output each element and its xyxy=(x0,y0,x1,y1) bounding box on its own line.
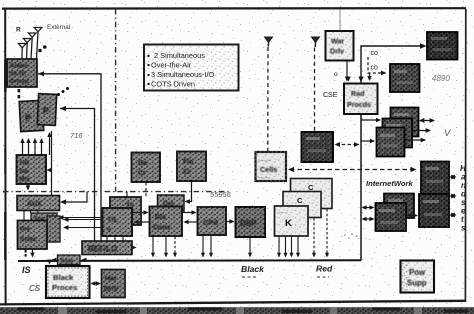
DA converter front box xyxy=(150,207,183,237)
svg-text:CPd: CPd xyxy=(203,218,218,227)
svg-text:COTS Driven: COTS Driven xyxy=(151,80,195,89)
svg-text:Rad: Rad xyxy=(351,90,364,98)
bottom film strip bar xyxy=(0,307,474,314)
svg-text:DSP: DSP xyxy=(240,219,257,228)
dashed section boundary vertical xyxy=(115,9,117,192)
bridge left arrows xyxy=(363,207,374,209)
svg-text:co: co xyxy=(371,50,379,57)
gateway right arrows xyxy=(451,176,456,178)
dsp stack box 3 xyxy=(377,128,405,157)
C stack box 3 xyxy=(275,206,309,236)
dsp stack box 2 xyxy=(383,119,413,148)
frame left thick blobs xyxy=(4,60,7,92)
svg-text:Snju: Snju xyxy=(61,259,74,265)
IS bus line xyxy=(18,259,361,262)
black underline dashes xyxy=(242,276,257,278)
dsp stack left arrows xyxy=(361,119,380,121)
power supply box xyxy=(401,261,435,293)
svg-text:Pre: Pre xyxy=(20,226,31,233)
ref/lo right arrow xyxy=(132,247,136,249)
dotted connector group to PA xyxy=(18,89,21,98)
svg-text:P: P xyxy=(25,113,32,123)
frame bottom line xyxy=(0,301,466,305)
bus down arrows middle xyxy=(153,236,250,257)
dsp stack right arrows xyxy=(420,120,434,122)
rad processor box xyxy=(344,84,378,115)
wire into T/R right edge xyxy=(48,169,52,171)
DSP box xyxy=(236,207,266,237)
svg-text:s: s xyxy=(461,224,466,233)
svg-text:716: 716 xyxy=(70,131,83,140)
dashed wire cells to internetwork xyxy=(290,169,414,171)
antenna B1 dashed feed xyxy=(267,47,269,152)
tuning small box xyxy=(31,213,57,222)
frame left line xyxy=(4,9,6,304)
svg-text:Har: Har xyxy=(105,276,117,283)
svg-text:Drlv: Drlv xyxy=(330,47,344,56)
wire into antenna group from right xyxy=(38,74,101,241)
svg-text:Over-the-Air: Over-the-Air xyxy=(151,61,192,70)
main vertical bus xyxy=(360,114,362,261)
svg-text:Cells: Cells xyxy=(260,165,277,174)
antenna B1 xyxy=(265,37,273,43)
dashed section boundary horizontal xyxy=(3,191,230,193)
svg-text:Black: Black xyxy=(241,264,265,274)
svg-text:Pow: Pow xyxy=(409,268,426,277)
gateway tall box lower xyxy=(419,194,449,227)
svg-text:Conv: Conv xyxy=(153,225,171,232)
svg-text:4890: 4890 xyxy=(432,74,450,83)
T/R switch box xyxy=(17,155,47,184)
svg-text:CS: CS xyxy=(29,284,41,293)
har driver box xyxy=(102,270,126,298)
dashed stub into rad processor xyxy=(369,73,371,80)
svg-text:D/a: D/a xyxy=(155,214,166,221)
dashed co wire xyxy=(368,57,384,73)
right gray radio box xyxy=(390,64,420,92)
wire into aux from right xyxy=(60,199,66,204)
gateway tall box upper xyxy=(421,162,449,195)
frame top line xyxy=(2,7,466,10)
antenna A4 xyxy=(18,44,26,60)
label Handsets vertical xyxy=(460,164,467,233)
wire into aux corner x87 xyxy=(62,192,88,203)
TL back box xyxy=(110,197,141,225)
svg-text:Group: Group xyxy=(10,78,29,85)
svg-text:Cr: Cr xyxy=(183,169,191,176)
svg-text:3 Simultaneous-I/O: 3 Simultaneous-I/O xyxy=(151,70,215,79)
dashed wire modem to bus xyxy=(336,144,358,146)
snju box xyxy=(58,255,81,265)
antenna A2 xyxy=(28,33,36,59)
T/R up arrows xyxy=(23,133,50,155)
svg-text:CSE: CSE xyxy=(323,92,338,99)
svg-text:T/R: T/R xyxy=(19,160,30,167)
C stack box 2 xyxy=(283,192,321,218)
antenna A3 xyxy=(23,39,31,60)
C stack box 1 xyxy=(291,179,333,209)
svg-text:InternetWork: InternetWork xyxy=(366,179,413,188)
top right dark box xyxy=(427,32,458,60)
antenna B2 stem xyxy=(314,43,316,48)
svg-text:=~-=~: =~-=~ xyxy=(258,158,271,163)
note box xyxy=(144,45,239,91)
black processor box xyxy=(46,266,90,298)
antenna B2 xyxy=(312,37,320,43)
CPS box xyxy=(198,207,227,235)
antenna A1 xyxy=(34,28,42,60)
stub into rad processor top left xyxy=(348,78,350,81)
TL front box xyxy=(103,208,133,236)
svg-text:DrlV: DrlV xyxy=(104,286,119,293)
svg-text:co: co xyxy=(371,65,379,72)
Dxt back box xyxy=(158,195,185,211)
svg-text:Selec: Selec xyxy=(20,236,37,243)
svg-text:o: o xyxy=(334,71,338,78)
cells box xyxy=(256,152,287,181)
up converter box xyxy=(132,153,161,183)
aux to tuning stub arrows xyxy=(24,211,38,221)
arrowhead into PA xyxy=(60,106,66,111)
preselect back box xyxy=(47,216,60,242)
black proces top arrow xyxy=(49,261,51,264)
wire into PA from right xyxy=(60,109,95,242)
double arrow black to har xyxy=(92,283,101,285)
wire war driver to rad processor xyxy=(346,61,348,81)
svg-text:AUX: AUX xyxy=(27,201,42,208)
svg-text:T/L: T/L xyxy=(107,215,119,224)
svg-text:C: C xyxy=(297,196,303,205)
svg-text:C: C xyxy=(308,183,314,192)
svg-text:Sw: Sw xyxy=(19,168,28,175)
ref/lo box xyxy=(82,241,132,255)
red underline dashes xyxy=(317,276,329,278)
power amp PA front box xyxy=(37,94,56,126)
TL bottom stubs into ref/lo xyxy=(107,236,123,241)
preselect to TL wires xyxy=(64,219,103,221)
svg-text:=~ -=: =~ -= xyxy=(277,210,288,215)
C stack down arrows xyxy=(279,209,327,257)
ellipsis dots PA xyxy=(57,87,69,96)
corner wire bus to top right box xyxy=(361,46,424,84)
svg-text:REF/LO: REF/LO xyxy=(88,245,117,254)
stub war driver to top frame xyxy=(339,9,341,31)
svg-text:~=-~=: ~=-~= xyxy=(258,175,271,180)
war driver box xyxy=(326,31,354,61)
svg-text:External: External xyxy=(47,24,70,31)
antenna B1 stem xyxy=(267,43,269,47)
svg-text:R: R xyxy=(16,27,21,34)
arrow CPS to DSP xyxy=(227,221,234,223)
aux box xyxy=(17,196,60,211)
svg-text:P: P xyxy=(43,106,49,116)
svg-text:Flo: Flo xyxy=(183,159,194,166)
svg-text:War: War xyxy=(331,37,345,46)
dark modem box xyxy=(302,132,334,162)
snju side arrows xyxy=(52,258,57,262)
svg-text:Da: Da xyxy=(138,160,147,167)
svg-text:Black: Black xyxy=(53,273,74,282)
wire from down converter down xyxy=(186,182,192,202)
stub into TL top xyxy=(126,192,128,198)
arrows TL to DA xyxy=(133,212,148,214)
svg-text:Procds: Procds xyxy=(347,101,371,109)
frame right line xyxy=(464,9,466,302)
svg-text:Red: Red xyxy=(316,264,333,274)
arrowhead into antenna group xyxy=(38,71,44,76)
bridge to gateway double arrow xyxy=(408,215,417,217)
bridge back box xyxy=(384,194,414,219)
preselect bottom dotted arrow xyxy=(25,250,27,257)
down converter box xyxy=(177,152,206,182)
dashed wire from up converter down xyxy=(145,183,147,198)
preselect box xyxy=(18,221,48,250)
antenna B2 dashed feed xyxy=(314,48,316,132)
scan smudge dots xyxy=(344,234,358,239)
svg-text:K: K xyxy=(285,218,292,229)
bridge front box xyxy=(376,203,407,231)
svg-text:55956: 55956 xyxy=(210,190,232,199)
T/R bottom arrow xyxy=(27,184,29,190)
antenna group box xyxy=(7,59,37,87)
svg-text:Supp: Supp xyxy=(407,279,427,288)
wire tuning to TL xyxy=(59,217,104,219)
power amp PA back box xyxy=(19,100,44,131)
svg-text:u: u xyxy=(107,226,111,233)
vertical wire x51 xyxy=(51,131,53,195)
svg-text:Proces: Proces xyxy=(52,283,77,292)
ellipsis dots antennas xyxy=(38,45,46,52)
svg-text:IS: IS xyxy=(22,265,31,275)
svg-text:Cr: Cr xyxy=(138,170,146,177)
svg-text:Anten: Anten xyxy=(10,63,28,70)
svg-text:na Gr: na Gr xyxy=(10,70,27,77)
arrows DA to CPS xyxy=(183,212,196,214)
svg-text:Mtx: Mtx xyxy=(19,176,30,183)
dsp stack box 1 xyxy=(391,108,419,137)
svg-text:2 Simultaneous: 2 Simultaneous xyxy=(154,51,205,60)
